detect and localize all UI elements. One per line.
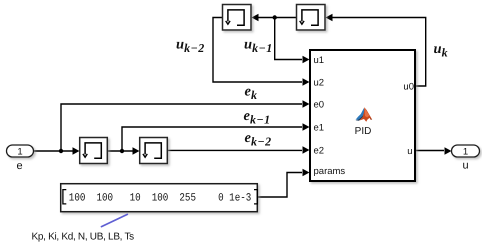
svg-text:params: params [314, 166, 346, 177]
pin label u [407, 146, 412, 157]
unit delay block De2 (second e delay) [140, 138, 168, 164]
annotation pointer line [102, 214, 128, 226]
svg-text:1: 1 [463, 147, 468, 158]
block name PID [355, 126, 372, 137]
svg-text:u1: u1 [314, 55, 325, 66]
pin label e1 [314, 122, 325, 133]
pin label e2 [314, 145, 325, 156]
inport label e [16, 160, 22, 172]
svg-text:ek−2: ek−2 [245, 130, 272, 149]
svg-text:e0: e0 [314, 99, 325, 110]
arrowhead into right u delay (points left) [326, 14, 333, 21]
arrowhead into first e delay [73, 147, 80, 154]
wire: inport e to delay chain [34, 150, 76, 152]
wire: second e delay to e2 input [168, 149, 302, 151]
pin label u1 [314, 55, 325, 66]
wire: u0 output up and left to u delay input [330, 18, 426, 87]
MATLAB membrane logo [356, 107, 373, 122]
unit delay block Du2 (top left u delay) [223, 5, 252, 31]
node C (junction between u delays) [273, 15, 277, 19]
arrowhead into outport u [445, 147, 452, 154]
signal label e_k [245, 84, 258, 103]
svg-text:ek: ek [245, 84, 258, 103]
unit delay block De1 (first e delay) [80, 138, 108, 164]
arrowhead into e1 port [303, 123, 310, 130]
svg-text:1: 1 [17, 147, 22, 158]
svg-text:u0: u0 [403, 82, 414, 93]
svg-text:100 100 10 100 255 0 1: 100 100 10 100 255 0 1e-3 [69, 192, 252, 204]
node A (junction on e wire) [59, 149, 63, 153]
wire: u output to outport [416, 150, 444, 152]
wire: right u delay output to left u delay [258, 17, 296, 19]
arrowhead into second e delay [133, 147, 140, 154]
svg-text:PID: PID [355, 126, 372, 137]
wire: branch up from node A to e0 input [61, 104, 302, 151]
outport 1 (u) [452, 145, 480, 158]
inport 1 (e) [7, 145, 34, 158]
arrowhead into u2 port [303, 78, 310, 85]
svg-text:e2: e2 [314, 145, 325, 156]
signal label e_k-1 [244, 108, 271, 127]
annotation text Kp Ki Kd N UB LB Ts [32, 232, 135, 243]
pin label e0 [314, 99, 325, 110]
arrowhead into params port [303, 169, 310, 176]
unit delay block Du1 (top right u delay) [297, 5, 326, 31]
pin label u2 [314, 77, 325, 88]
wire: left u delay output down to u2 port [213, 18, 302, 83]
arrowhead into u1 port [303, 56, 310, 63]
node B (junction between e delays) [120, 149, 124, 153]
wire: params constant to params port [258, 173, 302, 198]
constant right bracket [254, 190, 257, 204]
svg-text:u: u [462, 160, 468, 172]
wire: branch down from node C to u1 port [275, 18, 302, 60]
wire: branch up from node B to e1 input [122, 127, 302, 151]
svg-text:uk: uk [434, 41, 449, 60]
PID MATLAB Function block U1 [310, 50, 415, 181]
pin label params [314, 166, 346, 177]
constant block params vector [61, 184, 258, 212]
svg-text:e1: e1 [314, 122, 325, 133]
arrowhead into left u delay (points left) [252, 14, 259, 21]
svg-text:uk−1: uk−1 [244, 37, 273, 56]
signal label e_k-2 [245, 130, 272, 149]
outport label u [462, 160, 468, 172]
constant value text [69, 192, 252, 204]
arrowhead into e0 port [303, 100, 310, 107]
signal label u_k [434, 41, 449, 60]
svg-text:e: e [16, 160, 22, 172]
svg-text:u: u [407, 146, 412, 157]
svg-text:ek−1: ek−1 [244, 108, 271, 127]
wire: first e delay to second e delay [108, 150, 136, 152]
svg-text:Kp, Ki, Kd, N, UB, LB, Ts: Kp, Ki, Kd, N, UB, LB, Ts [32, 232, 135, 243]
constant left bracket [63, 190, 66, 204]
arrowhead into e2 port [303, 146, 310, 153]
signal label u_k-1 [244, 37, 273, 56]
signal label u_k-2 [176, 37, 205, 56]
svg-text:uk−2: uk−2 [176, 37, 205, 56]
pin label u0 [403, 82, 414, 93]
svg-text:u2: u2 [314, 77, 325, 88]
